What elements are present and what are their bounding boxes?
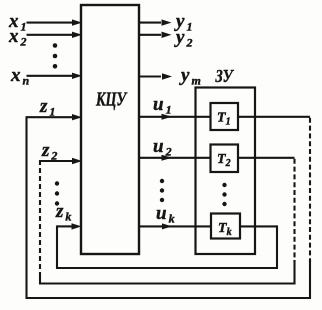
ellipsis dots x inputs — [53, 43, 58, 68]
output y1 wire — [139, 11, 192, 34]
signal u1 wire into T1 — [139, 94, 211, 120]
flip-flop T2 — [211, 145, 239, 173]
wire Tk loop right vertical — [276, 225, 278, 268]
wire Tk loop bottom horizontal — [56, 267, 278, 269]
wire T2 loop right vertical dashed — [293, 159, 295, 262]
svg-text:ЗУ: ЗУ — [215, 65, 234, 86]
flip-flop Tk — [211, 214, 240, 239]
output y2 wire — [139, 27, 192, 50]
wire T2 output to right — [238, 157, 295, 159]
feedback z2 input wire — [40, 140, 82, 164]
feedback z1 input wire — [27, 96, 83, 120]
wire T1 loop left vertical up to z1 — [25, 116, 27, 299]
ellipsis dots z feedbacks — [49, 181, 60, 205]
ellipsis dots u signals — [160, 179, 164, 202]
output ym wire — [139, 65, 201, 88]
flip-flop T1 — [211, 103, 239, 130]
input xn wire — [10, 65, 82, 88]
signal u2 wire into T2 — [139, 136, 211, 161]
block ЗУ — [196, 65, 256, 254]
wire T1 loop right vertical dashed — [309, 118, 311, 262]
signal uk wire into Tk — [139, 203, 211, 229]
block КЦУ — [81, 5, 139, 254]
wire Tk output to right — [240, 225, 277, 227]
wire T1 loop bottom-right corner and bottom horizontal — [26, 260, 311, 298]
wire T2 loop bottom-right corner and bottom horizontal — [39, 260, 295, 284]
input x2 wire — [8, 26, 82, 49]
wire Tk loop left vertical up to zk — [56, 225, 58, 269]
wire T1 output to right — [238, 116, 310, 118]
svg-text:КЦУ: КЦУ — [95, 88, 128, 110]
feedback zk input wire — [55, 201, 82, 230]
wire T2 loop left vertical dashed up to z2 — [39, 160, 41, 278]
input x1 wire — [8, 11, 82, 34]
ellipsis dots inside ЗУ — [222, 183, 226, 206]
